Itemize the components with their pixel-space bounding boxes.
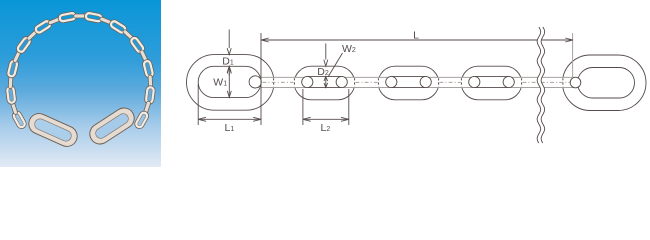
dimension extension line at link1 right [260,33,262,125]
end chain link outer oval [563,55,647,111]
svg-text:W1: W1 [213,76,227,88]
photo background gradient [0,0,161,167]
svg-text:L: L [413,30,419,42]
dimension L2 line [303,118,349,120]
dimension L line [261,39,573,41]
svg-text:D1: D1 [222,55,234,67]
dimension L2 extension lines [302,89,304,125]
stadium link inner slots and eye circles [307,75,341,77]
dimension D1 arrow from below [227,66,231,73]
photo end ring left [26,110,81,149]
svg-text:D2: D2 [317,66,329,78]
chain link 4 outline [461,66,522,100]
svg-text:L2: L2 [321,122,331,134]
end link eye circle (wire cross-section) [570,77,581,88]
chain link 2 outline [294,66,355,100]
photo chain links [11,110,28,131]
chain axis centerline [263,81,294,83]
dimension W1 double arrow [228,67,230,97]
photo end ring right [86,104,138,148]
dimension D2 arrow from above [325,43,327,59]
end chain link inner oval [578,68,635,99]
connecting bar links (edge view) [255,76,307,78]
dimension L extension line right (light) [572,33,574,78]
dimension L1 extension line left [197,84,199,125]
hidden cap sections (white-out + dots) [271,78,276,87]
chain link 1 outer oval [187,55,275,111]
chain link 3 outline [378,66,439,100]
dimension L1 line [198,118,261,120]
chain link 1 inner oval [198,66,261,97]
dimension D2 double arrow in slot [325,77,327,88]
svg-text:L1: L1 [225,122,235,134]
link 1 eye circle (wire cross-section) [249,76,261,88]
svg-text:W2: W2 [342,43,356,55]
break symbol (wavy cut lines) [537,27,545,143]
dimension D1 arrow from above [228,30,230,49]
W2 leader line [328,53,343,77]
